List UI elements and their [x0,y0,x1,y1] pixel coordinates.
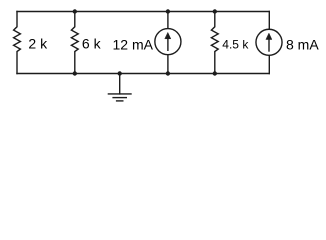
svg-text:8 mA: 8 mA [286,37,319,53]
svg-text:6 k: 6 k [82,35,102,51]
svg-text:12 mA: 12 mA [113,37,154,53]
svg-text:2 k: 2 k [28,35,48,51]
svg-text:4.5 k: 4.5 k [222,37,249,51]
